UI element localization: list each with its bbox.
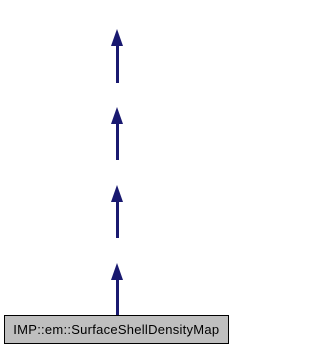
arrow 4	[111, 263, 123, 280]
arrow 2	[111, 107, 123, 124]
arrow 3	[111, 185, 123, 202]
arrow 1 (inheritance arrow, topmost)	[111, 29, 123, 46]
class box IMP::em::SurfaceShellDensityMap	[4, 315, 229, 344]
